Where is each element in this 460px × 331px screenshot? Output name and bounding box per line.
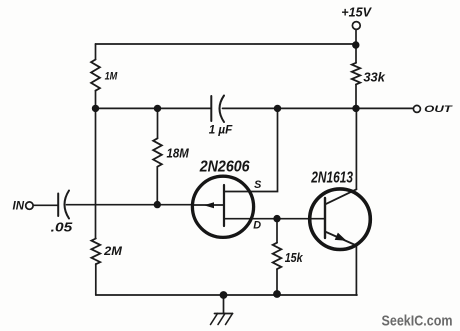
svg-text:18M: 18M bbox=[167, 146, 190, 160]
svg-text:2M: 2M bbox=[103, 244, 123, 258]
svg-text:2N2606: 2N2606 bbox=[199, 158, 250, 175]
svg-text:+15V: +15V bbox=[341, 6, 372, 20]
svg-text:IN: IN bbox=[13, 201, 25, 213]
svg-text:.05: .05 bbox=[51, 219, 73, 234]
svg-text:33k: 33k bbox=[363, 70, 385, 85]
svg-text:OUT: OUT bbox=[424, 103, 453, 114]
svg-text:SeekIC.com: SeekIC.com bbox=[382, 312, 453, 329]
svg-text:15k: 15k bbox=[285, 250, 304, 265]
svg-text:S: S bbox=[254, 179, 262, 191]
svg-text:D: D bbox=[253, 220, 261, 232]
svg-text:1 µF: 1 µF bbox=[209, 123, 233, 137]
svg-text:2N1613: 2N1613 bbox=[311, 169, 354, 186]
svg-text:1M: 1M bbox=[105, 71, 119, 83]
